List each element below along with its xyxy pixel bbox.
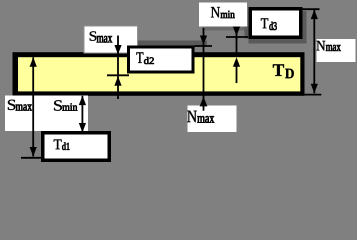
shadow right of Td3 bbox=[303, 11, 307, 44]
shadow left of Td3 bbox=[245, 27, 249, 39]
white label panel behind Smax/Smin (bottom left) bbox=[5, 96, 88, 132]
text Td2 bbox=[136, 52, 153, 64]
tolerance box Td1 bbox=[41, 131, 111, 162]
dimension Nmin: small arrows at x=236.5 bbox=[226, 27, 248, 84]
dimension Nmax(d2): line at x=203.5 from Nmin label down to Nmax label bbox=[195, 28, 213, 111]
tick at Td2 bottom level bbox=[107, 74, 129, 76]
arrowhead down at Td1 top bbox=[79, 123, 86, 133]
bottom tick at bar bottom bbox=[304, 94, 321, 96]
top tick from Td3 corner bbox=[300, 8, 320, 10]
text Td1 bbox=[54, 140, 70, 150]
arrowhead down at bar top bbox=[114, 45, 121, 55]
arrowhead down at Td2 top level bbox=[200, 36, 207, 46]
text Nmin bbox=[211, 7, 235, 18]
shadow strip above Td2 bbox=[138, 41, 208, 46]
arrowhead down at Td3 bottom level bbox=[233, 27, 240, 37]
dimension Smax(d2): vertical line from Smax box through bar bbox=[107, 36, 129, 100]
tolerance bar TD: yellow fill bbox=[18, 57, 300, 91]
dimension Smin: double arrow at x=82.4 bbox=[79, 96, 86, 133]
text Nmax (right) bbox=[316, 41, 340, 51]
arrowhead up bbox=[311, 10, 318, 20]
arrowhead up at bar top inside yellow bbox=[233, 57, 240, 67]
shadow below Td3 bbox=[249, 39, 307, 44]
dimension Smax: long arrow at x=32.8 bbox=[21, 57, 45, 158]
arrowhead up at bar bottom bbox=[79, 96, 86, 106]
label Nmax (right, white box) bbox=[317, 39, 356, 62]
text Smax (top) bbox=[90, 31, 113, 42]
text Td3 bbox=[261, 18, 277, 30]
text TD (bold) bbox=[273, 64, 294, 78]
label box Smax (top) bbox=[84, 26, 138, 53]
label Nmin (white box) bbox=[199, 3, 247, 27]
arrowhead down bbox=[311, 84, 318, 94]
arrowhead up at bar bottom bbox=[200, 97, 208, 107]
bottom tick bbox=[21, 157, 45, 159]
tail line inside bar bbox=[236, 66, 238, 83]
tick at Td3 bottom level bbox=[226, 36, 248, 38]
text Nmax (bottom) bbox=[187, 111, 214, 123]
shadow below Nmin label bbox=[202, 27, 250, 31]
arrowhead down at bottom tick bbox=[30, 147, 37, 157]
text Smax (bottom left) bbox=[8, 100, 32, 111]
tolerance bar TD: outer black border bbox=[13, 52, 305, 96]
tolerance box Td2 bbox=[127, 46, 195, 74]
dimension Nmax (right): vertical double arrow bbox=[300, 9, 322, 94]
arrowhead up at Td2 bottom bbox=[114, 76, 121, 86]
tolerance box Td3 bbox=[249, 7, 303, 39]
label Nmax (bottom, white box) bbox=[188, 106, 237, 133]
text Smin bbox=[54, 100, 77, 110]
arrowhead up at bar top bbox=[30, 57, 37, 66]
tick at Td2 top level bbox=[195, 45, 213, 47]
